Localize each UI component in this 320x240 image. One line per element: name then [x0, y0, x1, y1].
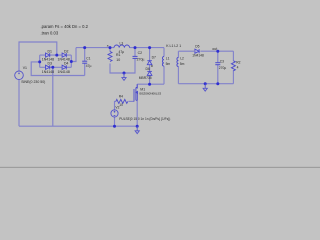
- wire V2 bottom lead: [114, 117, 116, 126]
- svg-text:D3: D3: [48, 62, 53, 66]
- svg-text:D7: D7: [152, 56, 156, 60]
- wire D5 cathode to load: [200, 50, 233, 52]
- node AC2 junction: [51, 66, 54, 69]
- inductor L2: [177, 58, 179, 67]
- svg-text:PULSE(0 15 0 1n 1n {Dn/Fs} {1/: PULSE(0 15 0 1n 1n {Dn/Fs} {1/Fs}): [119, 117, 170, 121]
- svg-text:C2: C2: [138, 51, 143, 55]
- wire bridge DC+ up to rail: [71, 48, 76, 62]
- svg-text:1N4148: 1N4148: [42, 70, 54, 74]
- ground main: [135, 126, 139, 133]
- svg-text:D5: D5: [195, 44, 199, 48]
- wire DC rail right part: [130, 47, 165, 49]
- wire clamp node horizontal: [137, 83, 164, 85]
- wire R4 left lead to V2: [115, 101, 116, 109]
- svg-text:BSZ060N06LS3: BSZ060N06LS3: [140, 92, 162, 96]
- inductor L3: [114, 45, 130, 48]
- diode D4: [62, 65, 66, 69]
- svg-text:1N4148: 1N4148: [58, 70, 70, 74]
- ground secondary: [203, 84, 207, 91]
- node rail-C2 junction: [134, 46, 137, 49]
- svg-text:R2: R2: [236, 61, 240, 65]
- svg-text:D4: D4: [64, 62, 69, 66]
- node C3 bottom junction: [216, 82, 219, 85]
- wire V1 bottom lead: [18, 80, 20, 127]
- svg-text:4: 4: [237, 66, 239, 70]
- wire DC rail left part: [76, 47, 114, 49]
- node source-rail junction: [136, 125, 139, 128]
- wire snubber top lead: [149, 48, 151, 61]
- wire C3 leads: [217, 51, 219, 62]
- window bottom edge: [0, 167, 320, 168]
- transistor M1: [134, 84, 138, 101]
- node rail-snubber junction: [148, 46, 151, 49]
- resistor R1: [108, 52, 112, 62]
- svg-text:V2: V2: [115, 106, 119, 110]
- svg-text:C1: C1: [86, 56, 90, 60]
- wire secondary bottom rail: [178, 83, 233, 85]
- svg-text:270µ: 270µ: [137, 57, 145, 61]
- wire bottom rail: [19, 125, 137, 127]
- voltage source V1: [15, 71, 24, 80]
- diode D3: [46, 65, 50, 69]
- svg-text:R4: R4: [119, 95, 123, 99]
- wire D6 to clamp node: [149, 76, 151, 85]
- svg-text:L3: L3: [120, 42, 124, 46]
- svg-text:270µ: 270µ: [219, 66, 227, 70]
- wire M1 source to bottom rail: [136, 100, 138, 126]
- svg-text:L1: L1: [166, 57, 170, 61]
- wire secondary top rail: [178, 50, 194, 52]
- svg-text:C3: C3: [220, 59, 224, 63]
- resistor R4: [116, 99, 128, 103]
- node DC- junction: [38, 60, 41, 63]
- inductor L1: [162, 57, 164, 67]
- wire R4 right lead to gate: [128, 100, 134, 102]
- wire bridge top row: [40, 54, 72, 56]
- wire C1 leads: [84, 48, 86, 61]
- svg-text:SINE(0 230 50): SINE(0 230 50): [21, 80, 45, 84]
- node DC+ junction: [70, 60, 73, 63]
- svg-text:L2: L2: [180, 57, 184, 61]
- svg-text:a: a: [107, 43, 109, 47]
- svg-text:V1: V1: [23, 66, 27, 70]
- diode D6: [147, 71, 152, 75]
- diode D1: [46, 53, 50, 57]
- svg-text:D1: D1: [48, 49, 53, 53]
- svg-text:D2: D2: [64, 49, 69, 53]
- svg-text:K L1 L2 1: K L1 L2 1: [166, 44, 181, 48]
- wire bridge left column: [39, 55, 41, 67]
- wire DC- to C1 bottom: [31, 62, 84, 76]
- wire bridge bottom row: [40, 66, 72, 68]
- capacitor C1: [82, 61, 87, 63]
- node rail-C1 junction: [83, 46, 86, 49]
- svg-text:D6: D6: [146, 67, 151, 71]
- node V2 bottom junction: [113, 125, 116, 128]
- ground primary filter: [123, 72, 126, 75]
- wire D7 to D6: [149, 65, 151, 72]
- node out junction: [216, 50, 219, 53]
- diode D7: [147, 61, 152, 65]
- node AC1 junction: [55, 54, 58, 57]
- capacitor C3: [215, 63, 220, 65]
- node secondary gnd junction: [204, 82, 207, 85]
- svg-text:5m: 5m: [166, 62, 171, 66]
- wire M1 drain lead: [136, 84, 138, 89]
- wire V1 top to bridge AC1: [19, 42, 57, 71]
- wire L2 top lead: [177, 51, 179, 57]
- wire L1 bottom lead: [163, 66, 165, 84]
- wire L1 top lead: [163, 48, 165, 57]
- wire load R2 leads: [232, 51, 234, 61]
- wire R1 leads: [109, 48, 111, 52]
- wire L2 bottom lead: [177, 67, 179, 84]
- node clamp junction: [148, 83, 151, 86]
- svg-text:.param Fs = 40k Dn = 0.2: .param Fs = 40k Dn = 0.2: [41, 24, 89, 29]
- diode D5: [195, 49, 199, 53]
- voltage source V2: [111, 110, 118, 117]
- node rail-R1 junction: [109, 46, 112, 49]
- svg-text:5m: 5m: [180, 62, 185, 66]
- svg-text:47µ: 47µ: [119, 50, 125, 54]
- svg-text:.tran 0.03: .tran 0.03: [41, 30, 59, 35]
- wire C2 leads: [134, 48, 136, 56]
- svg-text:10: 10: [116, 58, 120, 62]
- resistor R2 load: [231, 61, 235, 71]
- svg-text:MBR735: MBR735: [139, 76, 152, 80]
- svg-text:47µ: 47µ: [86, 64, 92, 68]
- wire bridge right column: [70, 55, 72, 67]
- diode D2: [62, 53, 66, 57]
- capacitor C2: [133, 56, 138, 58]
- svg-text:10: 10: [119, 103, 123, 107]
- wire bridge AC2 down to bottom rail: [52, 67, 54, 126]
- svg-text:1N4148: 1N4148: [192, 54, 204, 58]
